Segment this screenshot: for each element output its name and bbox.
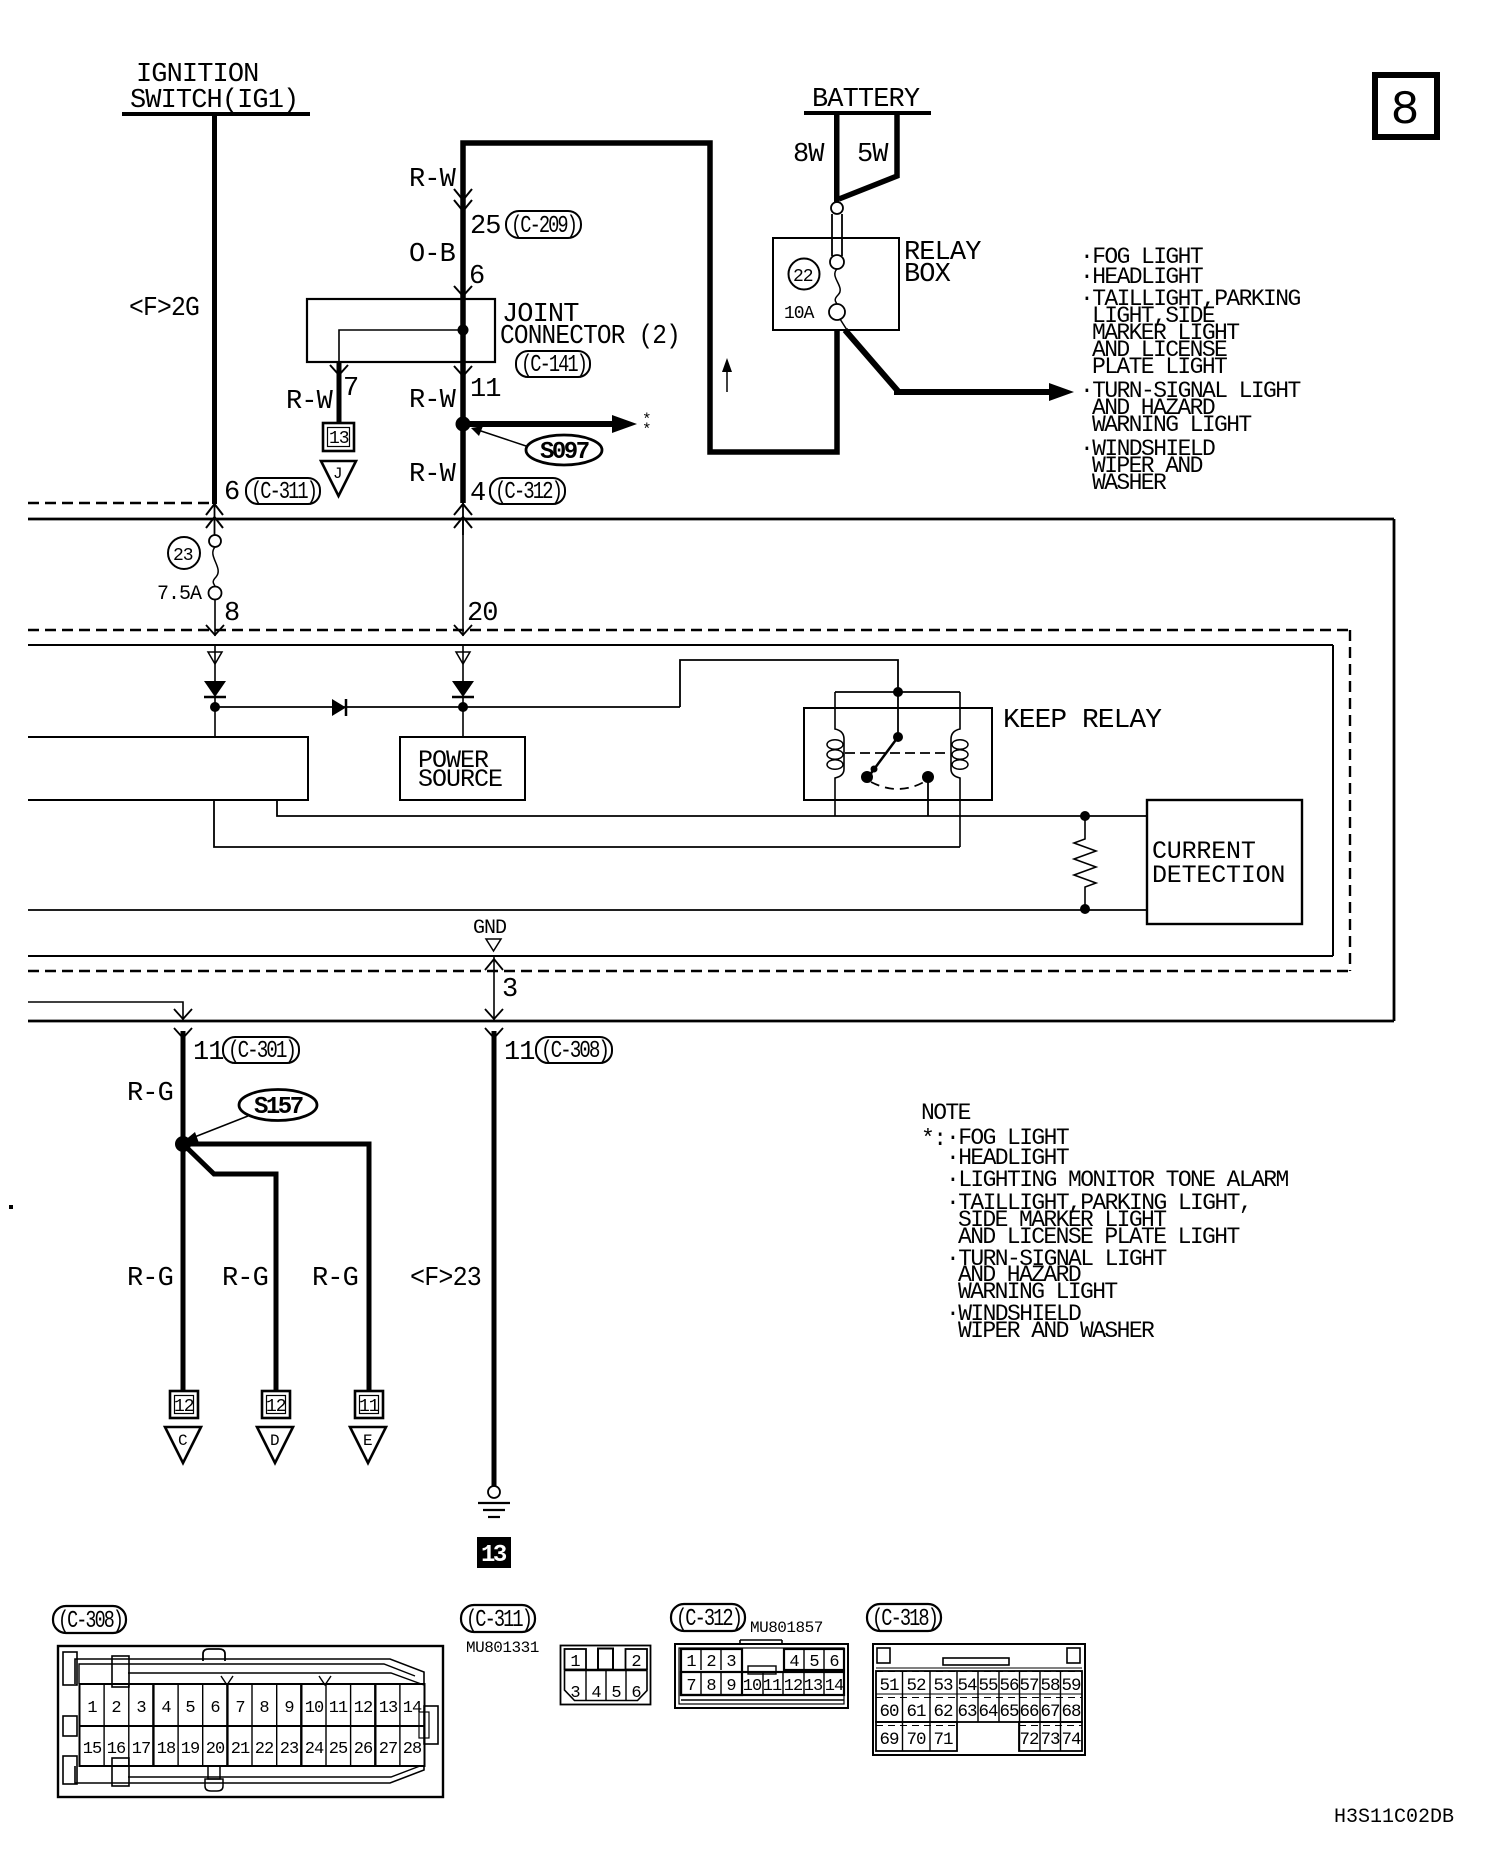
relay coil L1 (left): lead and bracket (835, 692, 844, 816)
wire branch to terminal 12 (D) (183, 1144, 276, 1392)
input marker triangle x215 (214, 645, 216, 681)
terminal box 13 (323, 423, 354, 451)
wire from y707 up and over to keep relay (680, 660, 898, 707)
diode D3 (series, pointing right) (332, 699, 346, 716)
svg-text:6: 6 (210, 1699, 220, 1718)
page number box 8 (1375, 75, 1437, 137)
fuse 23: top terminal (209, 535, 221, 547)
svg-text:(C-311): (C-311) (466, 1607, 531, 1634)
svg-text:(C-312): (C-312) (676, 1606, 741, 1633)
svg-text:13: 13 (804, 1677, 823, 1696)
svg-text:73: 73 (1040, 1730, 1060, 1750)
C-318 pin grid rows 51-59 / 60-68 (876, 1671, 1082, 1722)
svg-text:WASHER: WASHER (1092, 470, 1167, 496)
wire from left edge to pin 11 (C-301) (28, 1002, 183, 1021)
wire from NO contact down to upper rail (927, 777, 929, 816)
SECTION-CONNECTORS (53, 1604, 1454, 1829)
svg-text:70: 70 (906, 1730, 926, 1750)
svg-text:R-W: R-W (409, 386, 457, 416)
dashed wire stub at left going to pin 6 (28, 502, 213, 505)
internal MCU block (left rectangle) (28, 737, 308, 800)
svg-text:*: * (642, 421, 651, 439)
svg-text:R-G: R-G (127, 1079, 173, 1109)
svg-text:R-W: R-W (409, 460, 457, 490)
double chevron up at x463 crossing main box top (462, 503, 464, 535)
dashed function-block top line (28, 629, 1350, 631)
svg-text:GND: GND (473, 917, 506, 940)
svg-text:R-W: R-W (409, 165, 457, 195)
svg-text:5W: 5W (857, 140, 889, 170)
svg-text:21: 21 (231, 1740, 250, 1759)
C-312 center small tab (748, 1666, 776, 1674)
svg-text:10: 10 (743, 1677, 762, 1696)
svg-text:1: 1 (686, 1653, 696, 1672)
svg-text:PLATE LIGHT: PLATE LIGHT (1092, 354, 1227, 380)
svg-text:74: 74 (1061, 1730, 1081, 1750)
pointer arrow from S097 to junction (478, 430, 526, 446)
thick feed wire from battery: right vertical, top horizontal, down at x463 (463, 143, 837, 503)
switch common contact dot (861, 771, 873, 783)
switch normally-open contact dot (922, 771, 934, 783)
svg-text:14: 14 (403, 1699, 422, 1718)
relay coil L2 (right): lead and bracket (951, 692, 960, 847)
ground wire down from pin 11 (492, 1031, 497, 1486)
node at (215,707) (214, 697, 216, 737)
C-308 left mount tabs (63, 1652, 77, 1685)
triangle E (350, 1427, 386, 1463)
triangle D (257, 1427, 293, 1463)
svg-text:BOX: BOX (904, 260, 951, 290)
chevron up below inner block (485, 959, 503, 970)
inner solid block bottom line (28, 955, 1333, 957)
fuse 23 bottom terminal (209, 587, 222, 600)
chevron down at x183 (174, 1009, 192, 1019)
C-308 pin grid (80, 1684, 425, 1766)
switch pivot contact dot (893, 732, 903, 742)
connector stadium (C-141) (516, 351, 590, 377)
SECTION-BOTTOM (127, 1028, 612, 1569)
svg-text:28: 28 (403, 1740, 422, 1759)
node: resistor bottom junction (1080, 904, 1090, 914)
svg-text:63: 63 (957, 1702, 977, 1722)
svg-text:13: 13 (329, 429, 349, 449)
relay box outline (773, 238, 899, 330)
svg-text:8: 8 (259, 1699, 269, 1718)
chevron down below joint connector on pin7 wire (330, 365, 348, 375)
svg-text:R-W: R-W (286, 387, 334, 417)
svg-text:7: 7 (686, 1677, 695, 1696)
svg-text:6: 6 (829, 1653, 839, 1672)
splice oval S097 (526, 435, 602, 465)
chevron down at dashed crossing x463 (454, 625, 472, 635)
connector stadium (C-312) (490, 478, 565, 504)
SECTION-TOPRIGHT (773, 75, 1437, 496)
joint connector box (307, 299, 495, 362)
dashed throw arc (871, 782, 924, 789)
svg-text:17: 17 (132, 1740, 150, 1759)
svg-text:10A: 10A (784, 304, 815, 324)
node: splice junction S157 (175, 1136, 191, 1152)
svg-text:10: 10 (305, 1699, 324, 1718)
svg-text:9: 9 (284, 1699, 294, 1718)
svg-text:6: 6 (631, 1684, 641, 1703)
circled fuse number 23 (168, 537, 200, 569)
wire 5W from battery (with diagonal) (839, 114, 897, 199)
connector stadium (C-312) (671, 1604, 745, 1631)
svg-text:(C-318): (C-318) (872, 1606, 937, 1633)
keep relay box (804, 708, 992, 800)
node: top junction of keep relay (893, 687, 903, 697)
SECTION-KEEPRELAY (804, 687, 1302, 924)
svg-text:27: 27 (379, 1740, 397, 1759)
svg-text:13: 13 (481, 1542, 507, 1569)
svg-text:9: 9 (726, 1677, 736, 1696)
svg-text:S097: S097 (540, 439, 589, 466)
node: junction dot inside joint connector (458, 325, 469, 336)
wire x494 from inner block bottom to outer box bottom (493, 956, 495, 1021)
dashed mechanical link between coils (845, 752, 950, 754)
svg-text:56: 56 (999, 1676, 1019, 1696)
svg-text:5: 5 (809, 1653, 819, 1672)
svg-text:26: 26 (354, 1740, 373, 1759)
svg-text:24: 24 (305, 1740, 324, 1759)
svg-text:65: 65 (999, 1702, 1019, 1722)
GND marker triangle (486, 939, 501, 951)
svg-text:<F>2G: <F>2G (129, 294, 199, 324)
svg-text:DETECTION: DETECTION (1152, 861, 1285, 890)
svg-text:C: C (178, 1432, 187, 1450)
svg-text:1: 1 (570, 1653, 580, 1672)
wire from MCU block bottom down-right (lower rail) (214, 800, 960, 847)
fuse middle terminal circle (830, 255, 844, 269)
svg-text:8: 8 (706, 1677, 716, 1696)
chevron down below box bottom x494 (485, 1028, 503, 1038)
wire center to switch pivot (897, 692, 899, 736)
C-308 right key slot (424, 1706, 438, 1744)
svg-text:SWITCH(IG1): SWITCH(IG1) (130, 86, 298, 116)
stray scan speck (9, 1205, 13, 1209)
POWER SOURCE block (400, 737, 525, 800)
diode D1 (anode top) (204, 681, 226, 697)
C-318 column dividers (903, 1671, 1061, 1751)
svg-text:R-G: R-G (312, 1264, 358, 1294)
chevron down at outer box bottom x494 (485, 1009, 503, 1019)
triangle J (321, 461, 356, 496)
C-308 pin numbers row 1 (87, 1699, 422, 1718)
svg-text:SOURCE: SOURCE (418, 765, 502, 794)
ground reference box 13 (filled) (477, 1537, 511, 1568)
fuse wavy element (835, 269, 840, 304)
wire into main box at x215 with double chevron (214, 503, 216, 535)
C-312 cell dividers (701, 1649, 824, 1695)
wire (F)2G from ignition switch down (212, 114, 217, 504)
connector stadium (C-311) (461, 1605, 535, 1632)
svg-text:57: 57 (1019, 1676, 1039, 1696)
wire x463 from joint connector down (thick) (461, 362, 466, 503)
outer box bottom edge (28, 1020, 1394, 1023)
splice oval S157 (239, 1090, 317, 1121)
node S097 junction dot (456, 417, 471, 432)
svg-text:MU801857: MU801857 (750, 1619, 823, 1637)
svg-text:20: 20 (206, 1740, 225, 1759)
chevron down below box bottom x183 (174, 1028, 192, 1038)
svg-text:52: 52 (906, 1676, 926, 1696)
wire branch to terminal 12 (C) (181, 1144, 186, 1392)
svg-text:4: 4 (470, 479, 485, 509)
row3 right block 72-74 (1019, 1722, 1082, 1751)
svg-text:25: 25 (470, 212, 501, 242)
C-318 pin numbers (879, 1676, 1081, 1750)
svg-text:11: 11 (504, 1038, 535, 1068)
svg-text:55: 55 (978, 1676, 998, 1696)
svg-text:6: 6 (224, 478, 239, 508)
circled fuse number 22 (789, 259, 820, 290)
wire top link bar y692 (835, 691, 960, 693)
svg-text:7: 7 (235, 1699, 244, 1718)
fuse cartridge body (831, 214, 833, 256)
svg-text:1: 1 (87, 1699, 97, 1718)
svg-text:2: 2 (111, 1699, 120, 1718)
svg-text:S157: S157 (254, 1094, 303, 1121)
SECTION-NOTE (921, 1100, 1288, 1344)
terminal box 11 (third) (355, 1391, 383, 1418)
fuse 23 wavy element (213, 547, 218, 586)
outer box right edge (1393, 519, 1396, 1021)
C-312 bottom row block 10-14 (681, 1672, 844, 1695)
connector stadium (C-209) (506, 211, 581, 238)
wire from fuse down across dashed line (214, 599, 216, 636)
svg-text:O-B: O-B (409, 240, 456, 270)
wire x463 from box top down (462, 519, 464, 636)
svg-text:7.5A: 7.5A (157, 583, 202, 606)
svg-text:(C-312): (C-312) (495, 479, 561, 506)
SECTION-TOPLEFT (28, 60, 320, 535)
C-308 inner housing (75, 1659, 424, 1684)
connector C-318 body (873, 1644, 1085, 1755)
svg-text:MU801331: MU801331 (466, 1639, 539, 1657)
wire bus y707 with series diode (215, 706, 680, 708)
svg-text:J: J (333, 465, 342, 483)
dashed function-block bottom line (28, 970, 1350, 972)
svg-text:CONNECTOR (2): CONNECTOR (2) (500, 322, 680, 352)
svg-text:D: D (270, 1432, 279, 1450)
svg-text:2: 2 (631, 1653, 640, 1672)
svg-text:H3S11C02DB: H3S11C02DB (1334, 1806, 1454, 1829)
svg-text:3: 3 (136, 1699, 146, 1718)
ignition switch bus bar (122, 112, 310, 116)
svg-text:12: 12 (784, 1677, 802, 1696)
CURRENT DETECTION block (1147, 800, 1302, 924)
pointer arrow from S157 to junction (192, 1116, 248, 1138)
diode D2 (anode top) (452, 681, 474, 697)
chevron down into joint connector (454, 286, 472, 296)
wire R-W down to terminal 13 (337, 362, 342, 424)
fuse bottom terminal circle (829, 304, 845, 320)
svg-text:(C-141): (C-141) (521, 352, 586, 379)
svg-text:68: 68 (1061, 1702, 1081, 1722)
svg-text:19: 19 (181, 1740, 200, 1759)
C-312 right pin block 4-6 (784, 1649, 844, 1670)
svg-text:22: 22 (255, 1740, 273, 1759)
chevron down at x463 below box (454, 366, 472, 376)
svg-text:WARNING LIGHT: WARNING LIGHT (1092, 412, 1251, 438)
C-312 top tab (740, 1639, 782, 1641)
node at (463,707) (462, 697, 464, 737)
svg-text:14: 14 (825, 1677, 844, 1696)
connector C-311 body (561, 1646, 651, 1705)
fuse 22 element: top terminal circle (831, 202, 843, 214)
svg-text:WIPER AND WASHER: WIPER AND WASHER (958, 1318, 1155, 1344)
svg-text:23: 23 (173, 546, 193, 566)
chevron down at dashed crossing x215 (206, 625, 224, 635)
svg-text:4: 4 (161, 1699, 171, 1718)
double chevron down on wire x463 (454, 189, 472, 211)
svg-text:18: 18 (157, 1740, 176, 1759)
V notches on C-308 top edge (221, 1676, 233, 1685)
svg-text:(C-301): (C-301) (228, 1038, 295, 1065)
thick arrow to loads (asterisk) (463, 421, 616, 427)
C-308 top latch tab (203, 1649, 225, 1661)
svg-text:23: 23 (280, 1740, 299, 1759)
triangle C (165, 1427, 201, 1463)
input marker triangle x463 (462, 645, 464, 681)
svg-text:51: 51 (879, 1676, 899, 1696)
svg-text:72: 72 (1019, 1730, 1039, 1750)
svg-text:69: 69 (879, 1730, 899, 1750)
svg-text:BATTERY: BATTERY (812, 85, 920, 115)
C-311 pin cells (565, 1649, 587, 1670)
svg-text:11: 11 (329, 1699, 348, 1718)
svg-text:13: 13 (379, 1699, 398, 1718)
svg-text:3: 3 (726, 1653, 736, 1672)
svg-text:*:: *: (921, 1126, 945, 1152)
svg-text:66: 66 (1019, 1702, 1039, 1722)
svg-text:71: 71 (933, 1730, 953, 1750)
lead from fuse to box bottom (840, 319, 847, 330)
terminal box 12 (first) (170, 1391, 198, 1418)
svg-text:59: 59 (1061, 1676, 1081, 1696)
svg-text:8: 8 (1391, 84, 1420, 138)
wire from MCU block bottom (upper rail to current detection) (277, 800, 1147, 816)
svg-text:12: 12 (354, 1699, 372, 1718)
svg-text:11: 11 (470, 375, 501, 405)
svg-text:15: 15 (83, 1740, 102, 1759)
dashed function-block right edge (1349, 630, 1351, 971)
svg-text:(C-308): (C-308) (541, 1038, 608, 1065)
svg-text:67: 67 (1040, 1702, 1060, 1722)
wire inside joint connector to pin 7 (339, 330, 463, 362)
C-318 row separator bands (876, 1668, 1082, 1726)
column dividers row1+row2 (104, 1684, 400, 1766)
C-318 top tabs (877, 1648, 890, 1663)
svg-text:5: 5 (185, 1699, 195, 1718)
svg-text:20: 20 (467, 599, 498, 629)
wire branch to terminal 11 (E) (183, 1144, 369, 1392)
svg-text:11: 11 (763, 1677, 782, 1696)
ground symbol (488, 1486, 500, 1498)
ETACS unit outer box top edge (28, 518, 1394, 521)
svg-text:12: 12 (266, 1397, 286, 1417)
connector stadium (C-318) (867, 1604, 941, 1631)
connector C-312 body (675, 1644, 848, 1708)
svg-text:(C-209): (C-209) (511, 213, 576, 240)
row3 left block 69-71 (876, 1722, 957, 1751)
svg-text:E: E (363, 1432, 372, 1450)
svg-text:4: 4 (789, 1653, 799, 1672)
connector stadium (C-311) (246, 478, 320, 504)
svg-text:2: 2 (706, 1653, 715, 1672)
connector stadium (C-301) (223, 1037, 299, 1063)
svg-text:22: 22 (793, 267, 813, 287)
svg-text:3: 3 (570, 1684, 580, 1703)
svg-text:R-G: R-G (127, 1264, 173, 1294)
svg-text:(C-308): (C-308) (58, 1608, 122, 1635)
connector C-308 body outer (58, 1646, 443, 1797)
svg-text:12: 12 (174, 1397, 194, 1417)
C-308 bottom latch tab (208, 1766, 220, 1779)
svg-text:54: 54 (957, 1676, 977, 1696)
SECTION-MAINBOX (28, 519, 1394, 1021)
connector stadium (C-308) (53, 1606, 126, 1633)
svg-text:53: 53 (933, 1676, 953, 1696)
resistor R1 vertical (1080, 811, 1090, 821)
svg-text:3: 3 (502, 975, 517, 1005)
thick arrow from fuse to load list (845, 330, 1053, 392)
C-312 left pin block 1-3 / 7-9 (681, 1649, 742, 1695)
svg-text:11: 11 (359, 1397, 379, 1417)
svg-text:<F>23: <F>23 (410, 1264, 481, 1294)
svg-text:R-G: R-G (222, 1264, 268, 1294)
svg-text:58: 58 (1040, 1676, 1060, 1696)
svg-text:62: 62 (933, 1702, 953, 1722)
svg-text:8W: 8W (793, 140, 825, 170)
svg-text:5: 5 (611, 1684, 621, 1703)
svg-text:61: 61 (906, 1702, 926, 1722)
inner solid block top line (28, 644, 1333, 646)
connector stadium (C-308) (536, 1037, 612, 1063)
svg-text:8: 8 (224, 599, 239, 629)
ground rail y910 (28, 909, 1147, 911)
switch arm (869, 737, 898, 776)
C-308 pin numbers row 2 (83, 1740, 422, 1759)
svg-text:4: 4 (591, 1684, 601, 1703)
svg-text:60: 60 (879, 1702, 899, 1722)
C-312 pin numbers (686, 1653, 844, 1696)
svg-text:(C-311): (C-311) (251, 479, 316, 506)
svg-text:11: 11 (193, 1038, 224, 1068)
inner solid block right edge (1332, 645, 1334, 956)
svg-text:7: 7 (343, 374, 358, 404)
current direction arrow beside wire x710 (726, 366, 728, 392)
wire 8W from battery (834, 114, 840, 202)
battery bus bar (804, 111, 931, 115)
svg-text:NOTE: NOTE (921, 1100, 971, 1126)
svg-text:25: 25 (329, 1740, 348, 1759)
svg-text:16: 16 (107, 1740, 126, 1759)
C-311 pin numbers (570, 1653, 641, 1703)
SECTION-TOPMID (286, 143, 837, 535)
terminal box 12 (second) (262, 1391, 290, 1418)
svg-text:KEEP RELAY: KEEP RELAY (1003, 706, 1162, 736)
svg-text:64: 64 (978, 1702, 998, 1722)
wire R-G down to splice S157 (181, 1031, 186, 1144)
